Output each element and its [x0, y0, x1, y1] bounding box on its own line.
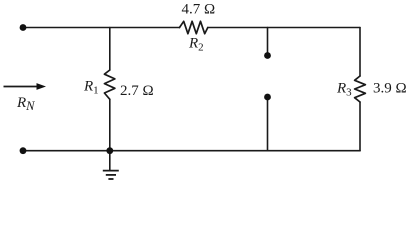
- resistor R3 zigzag: [355, 76, 366, 102]
- svg-text:3.9 Ω: 3.9 Ω: [373, 81, 407, 97]
- arrow RN: [4, 83, 47, 90]
- wire bottom: [23, 150, 360, 152]
- wire R1 branch lower: [109, 99, 111, 150]
- wire top-right segment: [208, 27, 360, 29]
- svg-text:RN: RN: [16, 95, 35, 113]
- ground bar 3: [108, 178, 113, 180]
- junction dot at ground: [106, 147, 113, 154]
- terminal dot bottom-left: [20, 147, 27, 154]
- wire top-left segment: [23, 27, 180, 29]
- wire right side upper: [359, 28, 361, 77]
- wire middle branch upper (to open terminal): [267, 28, 269, 54]
- wire R1 branch upper: [109, 28, 111, 71]
- svg-text:R3: R3: [336, 81, 352, 99]
- resistor R1 zigzag: [104, 70, 115, 99]
- svg-text:4.7 Ω: 4.7 Ω: [182, 2, 216, 18]
- wire right side lower: [359, 102, 361, 151]
- resistor R2 zigzag: [180, 21, 208, 33]
- ground bar 1: [103, 170, 119, 172]
- svg-text:R2: R2: [188, 36, 204, 54]
- wire middle branch lower (from open terminal): [267, 99, 269, 151]
- svg-text:2.7 Ω: 2.7 Ω: [120, 83, 154, 99]
- terminal dot top-left: [20, 24, 27, 31]
- svg-text:R1: R1: [83, 79, 99, 97]
- ground stem: [109, 151, 111, 170]
- ground bar 2: [106, 174, 116, 176]
- node lower open terminal: [264, 94, 271, 101]
- node upper open terminal: [264, 52, 271, 59]
